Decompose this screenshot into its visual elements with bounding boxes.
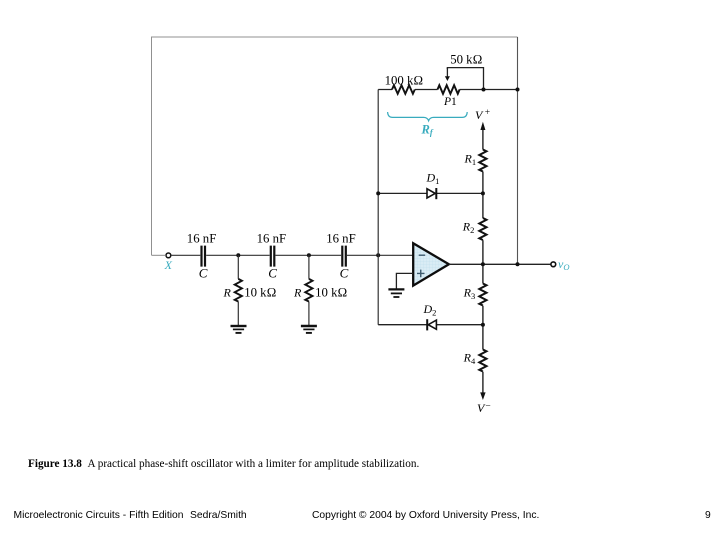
wire ladder horizontal (171, 254, 414, 256)
wire shunt 1 (237, 255, 239, 325)
wire R3 to D2 node (482, 306, 484, 350)
wire 50k wiper loop (447, 68, 483, 90)
svg-text:50 kΩ: 50 kΩ (450, 52, 482, 66)
resistor R (10 k, second shunt) (305, 279, 312, 302)
capacitor C (second, 16 nF) (271, 246, 275, 267)
svg-text:D1: D1 (426, 171, 440, 187)
potentiometer P1 body (438, 85, 460, 94)
svg-text:V−: V− (477, 401, 491, 415)
capacitor C (third, 16 nF) (342, 246, 346, 267)
node junction pot-loop (482, 88, 486, 92)
diode D1 (378, 192, 483, 194)
brace Rf (388, 112, 468, 121)
op-amp U1 (413, 243, 449, 285)
wire top feedback (152, 37, 518, 255)
wire Rf line segments (378, 89, 517, 91)
resistor R1 (479, 150, 486, 172)
svg-text:C: C (268, 266, 277, 281)
svg-text:R4: R4 (463, 351, 476, 367)
svg-text:C: C (340, 266, 349, 281)
svg-text:R: R (293, 286, 302, 300)
wire shunt 2 (308, 255, 310, 325)
svg-text:R1: R1 (464, 151, 477, 167)
svg-text:P1: P1 (443, 96, 457, 108)
resistor R (10 k, first shunt) (235, 279, 242, 302)
capacitor C (first, 16 nF) (202, 246, 206, 267)
node junction output-feedback (516, 262, 520, 266)
node junction Rf-output wire (516, 88, 520, 92)
wire R1 to D1 node (482, 172, 484, 219)
wiper arrow (446, 68, 448, 77)
node junction D2 right (481, 323, 485, 327)
node junction D1 left (376, 191, 380, 195)
node junction ladder 1 (236, 253, 240, 257)
svg-text:vO: vO (558, 257, 569, 272)
svg-text:Rf: Rf (421, 122, 434, 137)
svg-text:R: R (223, 286, 232, 300)
svg-text:X: X (164, 258, 173, 272)
ground (ladder 1) (231, 326, 247, 333)
svg-text:C: C (199, 266, 208, 281)
output terminal circle (551, 262, 556, 267)
svg-text:16 nF: 16 nF (326, 232, 356, 246)
V+ arrow (482, 129, 484, 150)
node X terminal circle (166, 253, 171, 258)
svg-text:R3: R3 (463, 286, 476, 302)
resistor R2 (479, 218, 486, 240)
diode D2 (378, 324, 483, 326)
resistor R4 (479, 350, 486, 372)
svg-text:V+: V+ (475, 108, 490, 122)
svg-text:R2: R2 (462, 219, 475, 235)
V- arrow (480, 392, 485, 400)
ground (ladder 2) (301, 326, 317, 333)
wire plus input (396, 273, 413, 288)
ground (op-amp plus) (388, 289, 404, 297)
svg-text:D2: D2 (423, 302, 437, 318)
svg-text:16 nF: 16 nF (257, 232, 287, 246)
svg-text:16 nF: 16 nF (187, 232, 217, 246)
wire R4 to V- arrow (482, 372, 484, 393)
resistor 100 kOhm (392, 85, 415, 94)
node junction D1 right (481, 191, 485, 195)
resistor R3 (479, 284, 486, 306)
wire R2 to output node (482, 240, 484, 283)
node junction output-chain (481, 262, 485, 266)
op-amp plus sign (417, 270, 425, 278)
op-amp minus sign (419, 254, 426, 256)
svg-text:10 kΩ: 10 kΩ (244, 286, 276, 300)
wire limiter left vertical (377, 90, 379, 325)
wire right feedback vertical (517, 37, 519, 264)
node junction ladder 2 (307, 253, 311, 257)
svg-text:100 kΩ: 100 kΩ (385, 73, 424, 87)
svg-text:10 kΩ: 10 kΩ (315, 286, 347, 300)
wire X stub (152, 254, 166, 256)
node junction ladder right / inverting node (376, 253, 380, 257)
wire output (449, 263, 551, 265)
